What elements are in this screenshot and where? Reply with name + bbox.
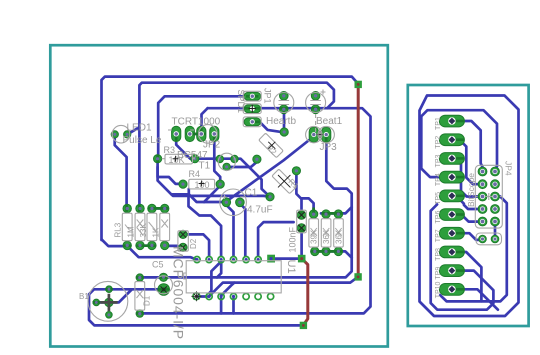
svg-text:JP1: JP1 (263, 88, 273, 104)
wire TP8 loop around bottom (452, 252, 481, 301)
wire JP1 pad1 to R3 left via top (158, 96, 252, 155)
wire horizontal y196 to R1 bottom pad (171, 194, 270, 196)
wire RL3-RL4 top link (152, 207, 165, 210)
R4 outline and labels (189, 169, 215, 190)
R3 pads (154, 155, 199, 163)
via pair below JP4 (479, 235, 499, 243)
C1 labels (245, 188, 273, 216)
svg-text:TP9: TP9 (435, 267, 442, 280)
wire D2 top to U1 pin2 (183, 234, 209, 255)
wire TP3 to JP4 A3 (452, 158, 478, 196)
wire U1 pin6 up to C2 area (258, 222, 294, 256)
R5 R6 R7 bottom pads (311, 247, 343, 255)
svg-text:36K: 36K (334, 229, 343, 244)
svg-text:BC547: BC547 (177, 150, 208, 161)
R1 pads (266, 167, 301, 201)
svg-text:TP4: TP4 (435, 173, 442, 186)
R2 pads (253, 128, 289, 163)
JP2 label (203, 140, 221, 151)
wire JP3 pad2 down right side to bus1 and D1 top (140, 138, 352, 277)
svg-text:D1: D1 (143, 295, 152, 306)
wire TP7 to via pair (452, 233, 480, 240)
wire R3 left pad down, taps R4 left (158, 163, 180, 184)
wire battery top rail to C5 (89, 289, 300, 325)
U1 pads bottom row (206, 293, 274, 299)
JP1 header pads (244, 92, 261, 125)
R8 outline (152, 213, 170, 241)
wire JP4 B5 to via2 (494, 226, 497, 237)
wire RL4 bottom to D2 bottom (165, 246, 181, 248)
R3 drill cross (173, 156, 179, 162)
svg-text:4.7uF: 4.7uF (247, 205, 273, 216)
wire TCRT pad4 to R4 right (214, 140, 220, 181)
MCP6004 big label (171, 246, 187, 340)
svg-text:Pulse Le: Pulse Le (123, 135, 162, 146)
Q1 outline (274, 93, 294, 113)
svg-text:39K: 39K (310, 229, 319, 244)
TP1 pad (439, 115, 464, 127)
svg-text:33K: 33K (139, 223, 148, 238)
D1 pads (136, 274, 143, 317)
C5 outline and label (152, 260, 173, 294)
wire R3 left vertical to R1 bottom horizontal (158, 167, 222, 256)
svg-text:TP7: TP7 (435, 229, 442, 242)
battery B1 outline (79, 281, 128, 321)
JP1 labels (236, 88, 273, 113)
R4 pads (179, 180, 224, 188)
U1 pin14 square junction (267, 255, 275, 263)
RL2 outline (127, 213, 145, 241)
wire TP1 to JP4 A1 (452, 121, 483, 167)
LED1 outline (112, 125, 130, 143)
wire U1 pin4 vertical up to C1 area (226, 204, 234, 256)
pad holes redrawn over copper stripes (95, 94, 340, 316)
wire C1 left to JP3 pad1 long diagonal (227, 137, 313, 201)
svg-text:Heartb: Heartb (266, 116, 296, 127)
R6 outline (321, 219, 331, 247)
wire GND drop to TCRT pad3 (202, 108, 208, 129)
svg-text:R3: R3 (164, 145, 176, 155)
svg-text:TP8: TP8 (435, 248, 442, 261)
svg-text:BitScope: BitScope (466, 173, 476, 207)
svg-text:TP6: TP6 (435, 211, 442, 224)
wire U1 pin14 to via link (271, 257, 302, 260)
R2 drill cross (268, 142, 275, 149)
wire TP2 to JP4 A2 (452, 140, 478, 185)
R7 outline (334, 219, 344, 247)
wire TP5 to JP4 A4 (452, 196, 478, 209)
wire U1 pin12 pin11 stubs down (221, 299, 233, 314)
svg-text:36K: 36K (322, 229, 331, 244)
JP3 outline and label (306, 126, 338, 152)
U1 outline (184, 261, 282, 293)
svg-text:TP10: TP10 (435, 281, 442, 298)
R2 diagonal outline (259, 133, 284, 158)
U1 label (285, 260, 297, 274)
R5 R6 R7 top pads (309, 210, 342, 218)
Q2 beat LED pads (311, 92, 320, 114)
TP4 pad (439, 171, 464, 183)
U1 pin1 crosshair pad (191, 291, 201, 301)
wire C1 right to U1 pin5 (240, 204, 245, 256)
wire V+ rail top: left vertical to red via (102, 77, 359, 240)
svg-text:D2: D2 (189, 238, 198, 249)
JP4 label (504, 161, 514, 176)
R3 outline (162, 154, 195, 164)
D2 outline and label (178, 231, 198, 252)
wire R6-R7 top rail to JP3 vertical (321, 207, 352, 213)
svg-text:JP3: JP3 (320, 142, 338, 153)
svg-text:C5: C5 (152, 260, 164, 270)
main board outline (50, 45, 388, 346)
RL1 outline (139, 213, 157, 241)
svg-text:LED1: LED1 (127, 123, 152, 134)
svg-text:TP2: TP2 (435, 136, 442, 149)
svg-text:T1: T1 (199, 161, 211, 172)
svg-text:TP5: TP5 (435, 192, 442, 205)
wire V+ rail lower: to RL3 bottom pad and U1 pin1 (102, 240, 125, 247)
wire Q1 bottom to R2 top pad (283, 110, 286, 129)
wire C1 left feed (189, 189, 223, 202)
wire bus2: U1 pin13 to red via (210, 277, 359, 296)
wire red net1: top right vertical (357, 85, 360, 276)
TP3 pad (439, 153, 464, 165)
svg-text:TP3: TP3 (435, 154, 442, 167)
svg-text:1M: 1M (127, 226, 136, 237)
wire TP4 to JP4 B1 via top loop (421, 110, 497, 177)
TP6 pad (439, 209, 464, 221)
TP labels (435, 117, 442, 298)
battery B1 pads (93, 286, 118, 318)
wire U1 pin12 diagonal to bus2 (221, 283, 234, 296)
svg-text:100nF: 100nF (288, 226, 298, 252)
wire TP6 to JP4 A5 (452, 215, 478, 222)
C2 outline and label (288, 210, 307, 252)
TP9 pad (439, 265, 464, 277)
wire U1 internal pin3 to pin13 (209, 262, 221, 294)
D1 outline and label (135, 282, 152, 311)
wire TP9 inner loop (431, 204, 494, 309)
Q1 heartbeat LED pads (280, 92, 289, 114)
RL resistor column pads (123, 204, 169, 249)
C5 pads (158, 273, 170, 295)
wire resistor bottom rail (315, 251, 352, 257)
JP3 header pads (309, 127, 331, 142)
C2 capacitor pads (297, 211, 306, 233)
TP5 pad (439, 190, 464, 202)
TCRT outline circle (168, 125, 217, 144)
T1 transistor pads (216, 155, 238, 170)
svg-text:JP4: JP4 (504, 161, 514, 176)
TCRT1000 sensor JP2 pads (172, 126, 219, 141)
R5 outline (309, 219, 319, 247)
wire battery left pad jog (96, 290, 131, 303)
JP1 outline (243, 91, 261, 126)
wire JP4 B3 right route (440, 197, 507, 302)
T1 outline (218, 153, 235, 170)
wire RL3 bottom to U1 pin1 (127, 246, 197, 260)
U1 MCP6004 DIP-14 pads top row (194, 257, 261, 263)
wire TCRT pad2-pad3 link (190, 133, 202, 136)
wire GND loop top: from LED column around transistors (139, 83, 334, 129)
R3 labels (164, 145, 211, 172)
wire right outer ring (420, 96, 519, 317)
svg-text:SPD1: SPD1 (236, 90, 246, 114)
LED1 pads (111, 131, 131, 138)
svg-text:Beat1: Beat1 (316, 116, 343, 127)
JP4 header pads 2x5 (478, 167, 499, 226)
wire JP1 pad3 to R2 top (252, 122, 281, 132)
RL3 outline (114, 213, 132, 241)
TCRT1000 label (172, 117, 221, 128)
svg-text:R4: R4 (189, 169, 201, 179)
wire overlays on pads (bottom copper under pads) (93, 96, 343, 313)
wire LED1 right pad diagonal up (127, 127, 139, 134)
TP7 pad (439, 227, 464, 239)
svg-text:JP2: JP2 (203, 140, 221, 151)
TP8 pad (439, 246, 464, 258)
R1 diagonal outline (272, 169, 301, 194)
BitScope label (466, 173, 476, 207)
svg-text:B1: B1 (79, 292, 89, 301)
wire U1 pin1-pin13 link (199, 295, 207, 298)
svg-text:RL3: RL3 (114, 222, 123, 237)
wire TCRT pad1 to R3 right pad (176, 140, 193, 159)
svg-text:TP1: TP1 (435, 117, 442, 130)
wire R3 right to R1 bottom diagonal (197, 159, 269, 197)
svg-text:U1: U1 (285, 260, 297, 274)
TP10 pad (439, 284, 464, 296)
Q2 outline (306, 93, 326, 113)
wire R1 top down to R5 top and C2 (296, 174, 313, 210)
LED1 labels (123, 123, 162, 146)
wire LED1 left pad down to RL resistor1 (115, 135, 127, 205)
wire RL2-RL3 bottom link (140, 244, 152, 247)
R4 drill cross (199, 181, 205, 187)
C1 outline (220, 189, 247, 216)
wire R4 right pad to C1 horizontal (204, 186, 220, 202)
wire R2 bottom to T1 bottom (230, 162, 257, 167)
svg-text:1K: 1K (152, 227, 161, 237)
TP2 pad (439, 134, 464, 146)
wire bus1 jog to U1 pin3 (217, 263, 221, 278)
C1 pads (222, 198, 244, 207)
via squares on nets (355, 81, 362, 88)
wire C2 bottom down to via (300, 231, 303, 256)
wire TP10 stub (452, 289, 498, 309)
wire C2 top tap (300, 198, 303, 211)
JP4 outline (475, 165, 502, 245)
Q1 Q2 labels (266, 90, 343, 128)
Q2 lead dashes (315, 114, 317, 132)
wire GND horizontal bus y108 (140, 108, 371, 313)
wire red net2: U1 pin14 to bottom rail (303, 259, 308, 324)
D2 pads (179, 230, 187, 251)
wire LED column x139 down to resistor2 (138, 128, 141, 206)
right board outline (408, 85, 529, 326)
svg-text:C1: C1 (245, 188, 258, 199)
svg-text:MCP6004-I/P: MCP6004-I/P (171, 246, 187, 340)
